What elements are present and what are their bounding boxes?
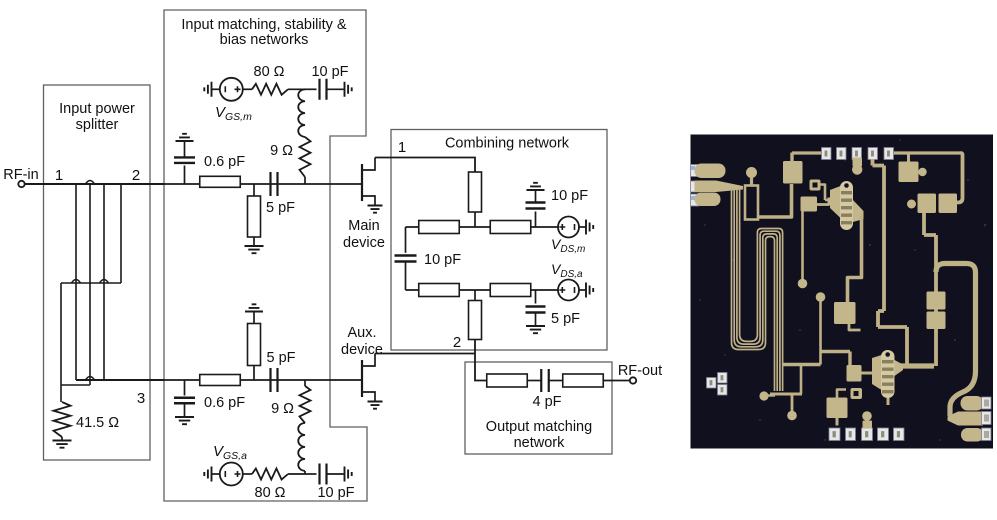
wire VGSm to 80 ohm resistor [243,88,252,90]
svg-text:Input power: Input power [59,101,135,117]
wire 9ohm to main line [304,177,306,184]
wire cap connections output [528,380,542,382]
wire bottom TL junction [474,290,476,301]
svg-text:9 Ω: 9 Ω [271,401,294,417]
transistor main device [361,164,363,201]
ground right of VDSa [579,289,586,291]
wire aux line through matching network [164,379,362,381]
svg-text:80 Ω: 80 Ω [254,64,285,80]
die square S4 with nub [899,162,919,183]
wire inductor to bias node aux [304,471,306,474]
svg-text:device: device [343,235,385,251]
port RF-in terminal [18,181,24,187]
bottom branch wire [406,289,559,291]
left vertical wire combining [405,227,407,253]
ground below 5pF combining [526,326,545,333]
svg-text:1: 1 [55,167,63,184]
series capacitor aux [271,368,278,392]
wire VGSa to 80 ohm resistor [243,473,252,475]
wire stub to ground main [253,237,255,246]
resistor 41.5 ohm [54,402,71,437]
splitter mid connection [61,282,121,284]
wire to inverted ground combining [535,190,537,203]
svg-text:10 pF: 10 pF [311,64,348,80]
svg-text:4 pF: 4 pF [532,394,561,410]
die aux FET source stub [887,398,890,405]
top branch wire [406,226,559,228]
voltage source VGS,a [220,463,243,486]
resistor 80 ohm main [252,84,288,95]
die trace splitter out to aux gate cap [821,352,851,366]
wire cap to bottom branch [405,262,407,291]
wire main line across splitter [76,183,164,185]
box: output matching network [465,362,612,454]
transmission line vertical top (combining) [469,172,482,212]
die series caps in U leg [927,292,946,310]
wire 5pF to ground [535,313,537,327]
voltage source VGS,m [220,78,243,101]
die folded coupled-line splitter [732,188,775,391]
transmission line top branch left [419,221,460,234]
wire main line through matching network [164,183,362,185]
die main FET drain trace to shunt cap [848,216,862,302]
inverted ground above stub aux [245,304,263,311]
series capacitor 4 pF [541,369,549,392]
inductor bias main [298,89,305,137]
shunt stub wire aux [253,366,255,381]
series capacitor 10 pF combining [395,256,417,262]
die ringed pad near main FET gate [810,180,821,191]
wire RF-in to splitter [25,183,90,185]
transmission line bottom branch left [419,284,460,297]
transmission line top branch right [490,221,531,234]
die hollow resonator rect [745,186,758,220]
wire cap to right ground aux bias [327,473,344,475]
die trace cap pair down to combiner leg [924,213,936,366]
die top bias bus stub [792,151,822,154]
svg-text:2: 2 [453,334,461,351]
die bottom pads row [829,428,840,441]
capacitor 5 pF shunt combining [526,307,546,313]
die right top trace from bus [957,153,963,203]
svg-text:bias networks: bias networks [220,32,309,48]
die gold tab with ball below pad3 [853,158,863,167]
port RF-out terminal [630,377,636,383]
wire cap to right ground main bias [327,88,344,90]
shunt capacitor 0.6 pF (aux) wire [184,380,186,396]
capacitor 10 pF main bias [320,79,327,100]
die top bias pads row [822,148,832,160]
box: combining network [391,130,607,351]
svg-text:41.5 Ω: 41.5 Ω [76,415,119,431]
svg-text:1: 1 [398,139,406,156]
inverted ground above 10pF combining [527,183,545,190]
svg-text:splitter: splitter [76,117,119,133]
wire to RF-out [604,380,631,382]
die right RF-out GSG pads [961,396,984,411]
svg-text:10 pF: 10 pF [317,485,354,501]
ground below stub main [245,246,264,253]
box: input power splitter [44,85,151,460]
shunt capacitor 0.6 pF (main) wire [184,166,186,185]
ground below aux device [368,402,383,409]
wire cap to ground aux [184,403,186,417]
resistor 9 ohm main [300,137,311,177]
inductor bias aux [298,423,305,471]
shunt 5 pF wire combining bottom [535,290,537,304]
die left RF-in GSG pads [691,165,700,177]
wire bias node to 10pF cap main [305,88,317,90]
svg-text:network: network [514,435,566,451]
wire ground to VGSm [212,88,220,90]
die cap S1 before aux FET [847,365,862,382]
svg-text:Main: Main [348,218,379,234]
ground below 41.5 ohm resistor [61,437,63,441]
die shunt cap S5 [834,302,856,324]
die MIM cap C2 [801,197,818,212]
transistor aux device [361,360,363,397]
ground right of 10pF main [345,82,352,97]
die wire cap2 down to ball [801,212,804,280]
die trace cap1 top to bias bus [790,153,793,163]
svg-text:0.6 pF: 0.6 pF [204,154,245,170]
ground right of VDSm [579,226,586,228]
die top right bus from pad5 [894,151,961,154]
die photograph background [691,135,994,449]
die splitter stub ball bottom [791,395,794,411]
shunt stub wire main [253,184,255,216]
wire stub to inverted ground aux [253,312,255,324]
wire TL to top branch [474,212,476,227]
svg-text:80 Ω: 80 Ω [255,485,286,501]
wire 80ohm to bias node main [288,88,305,90]
capacitor 10 pF shunt combining [526,203,546,209]
svg-text:3: 3 [137,390,145,407]
die combining U-curve to RF-out [900,264,976,417]
svg-text:Output matching: Output matching [486,419,592,435]
svg-text:RF-out: RF-out [618,363,662,379]
transmission line bottom branch right [490,284,531,297]
die bottom cap S6 [827,398,848,419]
wire splitter output to aux line [76,379,164,381]
svg-text:Combining network: Combining network [445,136,570,152]
die gold tab with ball above bottom pad [862,411,872,421]
transmission line stub aux (5 pF line) [248,324,261,366]
die cap pair right [907,200,916,209]
splitter coupled lines upper section [76,184,121,283]
die aux FET drain taper [895,360,904,376]
ground left of VGSa source [204,467,211,482]
wire aux source to ground [374,398,376,402]
wire 80ohm to bias node aux [288,473,305,475]
die surface speckles [699,139,986,441]
transmission line output left [487,374,528,387]
die splitter output tap [783,363,821,366]
die main FET drain taper [853,200,864,222]
resistor 9 ohm aux [300,386,311,423]
shunt 10 pF wire (combining top) [535,212,537,228]
die MIM cap C1 [783,161,803,184]
wire splitter isolation arm [61,385,90,402]
wire node 2 down to output network [475,340,487,381]
svg-text:10 pF: 10 pF [424,252,461,268]
splitter coupled lines lower section [61,283,104,385]
capacitor 0.6 pF main [174,157,195,163]
die splitter riser to output tap [800,365,803,395]
inverted ground above 0.6pF cap main [176,134,194,141]
transmission line main input [200,176,241,187]
wire main source to ground [374,202,376,206]
die ball stub 2 [816,292,826,302]
svg-text:device: device [341,342,383,358]
svg-text:5 pF: 5 pF [266,200,295,216]
ground below 0.6pF cap aux [175,417,194,424]
box: input matching stability and bias networks (notched) [164,10,367,501]
series capacitor main [271,172,278,196]
capacitor 10 pF aux bias [320,464,327,485]
ground right of 10pF aux [345,467,352,482]
voltage source VDS,a [558,280,579,301]
svg-text:Aux.: Aux. [347,325,376,341]
die trace resonator to cap C1 [757,184,792,217]
die bias feed vertical with jog from pad4 [873,159,908,366]
transmission line stub main (5 pF line) [248,196,261,237]
die left bottom white pads trio [707,378,717,389]
wire jog bumps mid connection [72,280,109,284]
wire cap to inverted ground [184,141,186,158]
wire aux drain to node 2 [375,353,475,355]
die pad circle above resonator [746,167,757,178]
wire main drain to combining network [375,158,475,173]
wire jog bump aux line [86,377,95,381]
svg-text:9 Ω: 9 Ω [270,143,293,159]
die main FET Q1 [830,186,841,218]
voltage source VDS,m [558,217,579,238]
svg-text:2: 2 [132,167,140,184]
die gate link ringed pad to main FET [820,185,830,201]
capacitor 0.6 pF aux [174,398,195,404]
die ringed pad aux [851,388,863,399]
svg-text:Input matching, stability &: Input matching, stability & [181,17,347,33]
svg-text:10 pF: 10 pF [551,188,588,204]
transmission line vertical bottom (combining) [469,301,482,340]
svg-text:0.6 pF: 0.6 pF [204,395,245,411]
ground below main device [368,206,383,213]
die splitter ball pad left [759,391,768,400]
svg-text:5 pF: 5 pF [267,350,296,366]
wire jog bump main line [86,181,95,185]
wire bias node to 10pF cap aux [305,473,317,475]
wire 9ohm top to aux line [304,380,306,386]
wire ground to VGSa [212,473,220,475]
transmission line aux input [200,375,241,386]
die aux FET Q2 [872,355,882,390]
ground left of VGSm source [204,82,211,97]
resistor 80 ohm aux [252,469,288,480]
transmission line output right [563,374,604,387]
die splitter bottom bar and termination [770,393,802,396]
svg-text:5 pF: 5 pF [551,311,580,327]
